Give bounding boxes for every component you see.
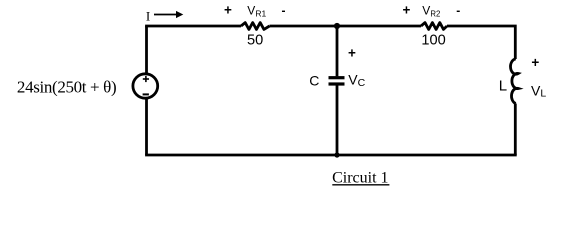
svg-text:+: + xyxy=(402,3,410,18)
svg-text:C: C xyxy=(309,73,319,89)
svg-text:+: + xyxy=(531,55,539,70)
wire top-middle segment (R1 right to node A to R2 left) xyxy=(270,25,422,28)
svg-text:I: I xyxy=(146,9,150,24)
caption underline xyxy=(332,184,389,186)
current arrow I head xyxy=(176,11,183,18)
wire left segment above source xyxy=(145,26,148,74)
svg-text:100: 100 xyxy=(421,32,445,48)
wire left segment below source xyxy=(145,99,148,155)
junction node B (bottom of capacitor branch) xyxy=(334,152,339,157)
resistor R2 xyxy=(421,23,447,30)
svg-text:-: - xyxy=(456,3,460,17)
current arrow I line xyxy=(154,14,177,16)
svg-text:-: - xyxy=(282,3,286,17)
resistor R1 xyxy=(241,23,270,30)
source plus sign xyxy=(143,76,149,82)
wire capacitor branch lower xyxy=(336,86,339,156)
wire bottom rail xyxy=(145,154,517,157)
svg-text:50: 50 xyxy=(247,32,263,48)
svg-text:24sin(250t + θ): 24sin(250t + θ) xyxy=(17,78,116,97)
svg-text:L: L xyxy=(499,78,507,95)
capacitor C bottom plate xyxy=(329,82,345,85)
wire capacitor branch upper xyxy=(336,26,339,76)
wire top-right segment (R2 right to inductor top) xyxy=(447,26,515,59)
wire top-left segment (source top node to R1 left) xyxy=(147,25,242,26)
source minus sign xyxy=(143,93,149,95)
svg-text:Circuit 1: Circuit 1 xyxy=(332,170,388,187)
svg-text:+: + xyxy=(224,3,232,18)
wire right-bottom segment (inductor bottom to bottom rail) xyxy=(514,104,517,156)
svg-text:+: + xyxy=(348,45,356,60)
junction node A (top of capacitor branch) xyxy=(334,23,340,29)
voltage source VS circle xyxy=(133,74,158,98)
capacitor C top plate xyxy=(329,76,345,79)
inductor L coil xyxy=(511,59,519,104)
